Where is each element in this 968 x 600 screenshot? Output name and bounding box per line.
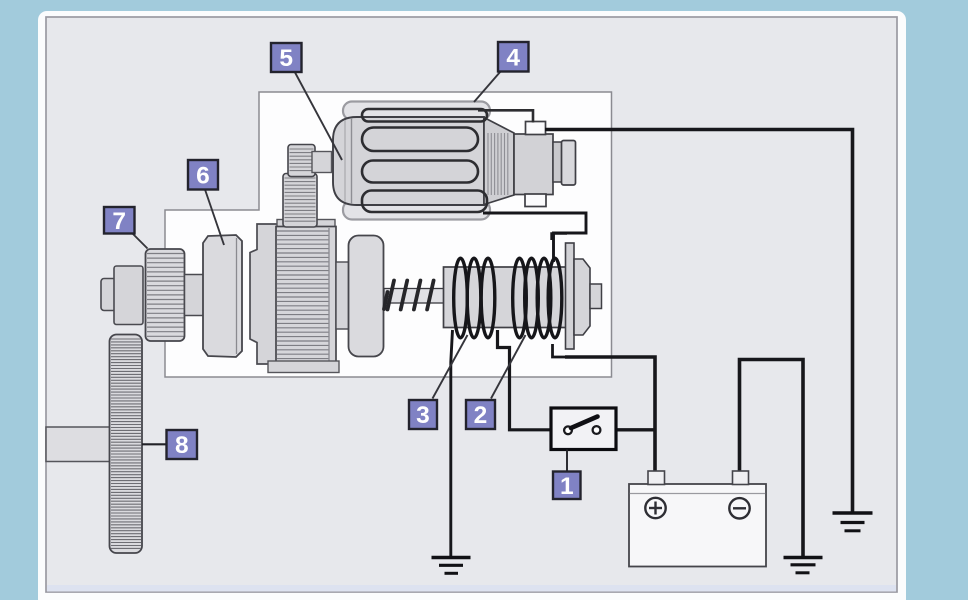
svg-text:2: 2 <box>474 402 488 429</box>
ground symbol bottom-right <box>784 558 823 573</box>
ignition switch box (item 1) <box>551 408 616 450</box>
field coil outer loop top <box>343 102 490 121</box>
svg-text:6: 6 <box>196 162 210 189</box>
armature end cylinder <box>349 236 384 357</box>
solenoid end cone <box>574 259 590 335</box>
motor compartment box <box>165 92 612 377</box>
motor right taper (ribbed) <box>484 118 514 205</box>
wire: battery negative to ground <box>740 360 804 558</box>
leader line 5 <box>295 72 343 161</box>
armature core bottom flange <box>268 361 339 373</box>
solenoid end nub <box>590 284 602 309</box>
label 6 <box>188 160 218 190</box>
drive shaft tip <box>101 279 116 311</box>
clutch drum <box>250 224 280 364</box>
battery minus symbol <box>729 498 749 518</box>
flywheel ring gear (item 8) <box>110 335 143 554</box>
drive shaft end block <box>114 266 143 325</box>
label 2 <box>466 400 495 429</box>
commutator end block <box>514 134 553 195</box>
battery body <box>629 484 766 567</box>
battery plus symbol <box>645 498 665 518</box>
crankshaft stub to ring gear <box>46 427 111 462</box>
label 7 <box>104 207 135 235</box>
wire: terminal to right ground <box>545 130 853 512</box>
gear-to-motor tab <box>312 152 332 173</box>
armature core top cap <box>277 220 335 230</box>
solenoid top bracket <box>552 234 568 241</box>
label 5 <box>271 43 302 72</box>
pinion-to-clutch spacer <box>185 275 204 316</box>
ground symbol center <box>432 558 471 574</box>
field winding loop 2 <box>362 128 478 152</box>
ground symbol right <box>833 513 873 531</box>
solenoid windings (items 2 and 3) <box>454 258 562 338</box>
wire: winding to terminal block <box>478 110 533 122</box>
field winding loop 3 <box>362 161 478 183</box>
wire: switch to battery wire junction <box>616 428 656 431</box>
solenoid plunger rod <box>444 267 567 328</box>
brush gear lower <box>283 174 317 228</box>
return spring coils <box>388 281 395 310</box>
label 1 <box>553 472 581 500</box>
leader line 1 <box>566 450 568 472</box>
wire: coil tap to switch <box>498 330 553 430</box>
label 8 <box>167 430 198 459</box>
svg-text:3: 3 <box>416 402 430 429</box>
field coil outer loop bottom <box>343 201 490 220</box>
label 4 <box>498 42 529 72</box>
pinion gear (item 7) <box>146 249 185 341</box>
field winding loop 1 (item 4) <box>362 109 487 122</box>
end bushing <box>562 141 576 186</box>
svg-text:8: 8 <box>175 432 189 459</box>
svg-text:4: 4 <box>506 44 520 71</box>
switch left contact <box>564 426 572 434</box>
leader line 3 <box>433 335 468 399</box>
leader line 7 <box>132 233 148 249</box>
switch right contact <box>593 426 601 434</box>
field winding loop 4 <box>362 191 487 213</box>
return spring shaft <box>384 289 444 304</box>
armature laminated core <box>276 227 336 370</box>
leader line 4 <box>474 72 501 103</box>
solenoid end plate <box>566 243 575 349</box>
solenoid bottom bracket <box>553 344 568 357</box>
battery positive post <box>648 471 665 485</box>
terminal block (top) <box>526 122 546 135</box>
brush gear upper <box>288 145 315 177</box>
lower white block <box>525 194 546 207</box>
motor body (item 5) <box>333 117 484 205</box>
switch lever <box>571 417 598 429</box>
core-to-cylinder shaft <box>336 262 349 329</box>
wire: motor to solenoid coil <box>483 213 586 262</box>
svg-text:1: 1 <box>560 473 574 500</box>
battery negative post <box>733 471 749 485</box>
end bearing small <box>553 142 562 182</box>
overrunning clutch (item 6) <box>203 235 242 357</box>
panel bottom tint strip <box>47 585 896 592</box>
svg-text:7: 7 <box>112 208 126 235</box>
leader line 6 <box>205 190 224 246</box>
leader line 8 <box>142 443 167 445</box>
wire: solenoid to battery positive <box>565 357 655 471</box>
label 3 <box>409 400 437 429</box>
svg-text:5: 5 <box>279 45 293 72</box>
leader line 2 <box>491 335 526 399</box>
wire: coil to center ground <box>451 330 453 557</box>
